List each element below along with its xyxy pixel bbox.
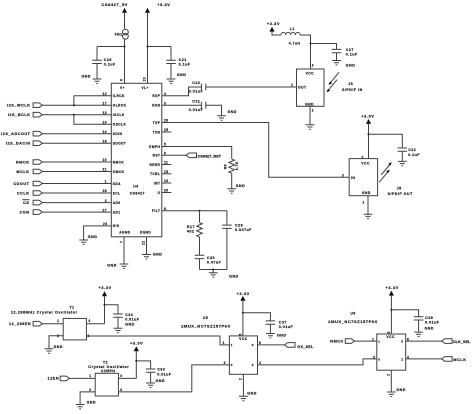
svg-text:+3.3V: +3.3V bbox=[157, 2, 170, 7]
svg-text:GND: GND bbox=[87, 401, 97, 405]
port CCLK bbox=[33, 191, 42, 196]
wire L1 to J6 VCC bbox=[300, 35, 310, 69]
wire CS8427_5V to FB1 bbox=[124, 13, 126, 29]
op-amp U4 CS8427 body bbox=[111, 83, 162, 237]
svg-text:0.1uF: 0.1uF bbox=[179, 63, 191, 67]
light-in arrow 1 (J6) bbox=[328, 80, 338, 91]
svg-text:C31: C31 bbox=[192, 99, 200, 103]
wire AGND pin to ground bbox=[123, 237, 125, 264]
svg-text:1: 1 bbox=[223, 341, 225, 345]
junction VL+ rail bbox=[147, 46, 149, 48]
wire C37 to ground bbox=[269, 324, 271, 333]
multiplexer U6 body bbox=[377, 334, 406, 370]
svg-text:CS8427_5V: CS8427_5V bbox=[101, 2, 128, 7]
svg-text:VCC: VCC bbox=[361, 162, 370, 166]
svg-text:GND: GND bbox=[88, 235, 98, 239]
wire branch to C38 bbox=[391, 310, 418, 317]
svg-text:4.7uH: 4.7uH bbox=[289, 41, 301, 45]
svg-text:12.288MHz Crystal Oscillator: 12.288MHz Crystal Oscillator bbox=[11, 311, 78, 315]
wire rail down to C21 top bbox=[170, 47, 172, 61]
svg-text:GND: GND bbox=[54, 345, 64, 349]
svg-text:FILT: FILT bbox=[152, 209, 160, 213]
svg-text:3: 3 bbox=[342, 173, 344, 177]
ground below U5 bbox=[239, 396, 248, 400]
svg-text:VCC: VCC bbox=[239, 337, 248, 341]
svg-text:GND: GND bbox=[277, 334, 287, 338]
junction C37 branch bbox=[242, 312, 244, 314]
svg-text:3: 3 bbox=[373, 355, 375, 359]
svg-text:C33: C33 bbox=[157, 368, 165, 372]
junction L1 node bbox=[310, 43, 312, 45]
svg-text:SCL: SCL bbox=[113, 191, 121, 195]
ground below H/S bbox=[79, 240, 88, 244]
wire 12EN to Y2 pin 1 bbox=[69, 377, 95, 379]
svg-text:CLK_SEL: CLK_SEL bbox=[453, 340, 471, 344]
svg-text:22: 22 bbox=[142, 241, 146, 245]
wire node to R17 bbox=[199, 211, 201, 223]
svg-text:+3.3V: +3.3V bbox=[130, 341, 143, 346]
svg-text:AD1: AD1 bbox=[113, 210, 121, 214]
svg-text:0.01uF: 0.01uF bbox=[125, 318, 140, 322]
capacitor C34 bbox=[113, 314, 123, 317]
wire branch to ILRCK pin 12 bbox=[74, 96, 111, 106]
svg-text:7: 7 bbox=[119, 241, 123, 243]
port RMCK (U6) bbox=[345, 339, 354, 344]
multiplexer U5 body bbox=[229, 336, 257, 374]
capacitor C31 bbox=[201, 102, 205, 109]
wire rail to C21 bbox=[148, 46, 172, 48]
junction I2S_BCLK branch bbox=[73, 114, 75, 116]
svg-text:OSCLK: OSCLK bbox=[113, 123, 127, 127]
svg-text:C32: C32 bbox=[192, 81, 200, 85]
capacitor C27 bbox=[332, 49, 342, 52]
resistor R17 bbox=[197, 223, 203, 237]
svg-text:Z: Z bbox=[401, 358, 403, 362]
wire branch to C34 bbox=[105, 305, 119, 314]
svg-text:1: 1 bbox=[372, 337, 374, 341]
svg-text:GND: GND bbox=[125, 323, 135, 327]
power arrow +3.3V (Y2) bbox=[134, 346, 139, 351]
wire RXP pin 4 to C32 bbox=[162, 87, 202, 96]
svg-text:OX_SEL: OX_SEL bbox=[297, 345, 314, 349]
svg-text:SDOUT: SDOUT bbox=[113, 142, 126, 146]
port CLK_SEL bbox=[442, 339, 453, 344]
wire I2S_WCLK to OLRCK bbox=[42, 104, 111, 106]
svg-text:0.047uF: 0.047uF bbox=[235, 228, 252, 232]
ground below Y1 bbox=[45, 349, 54, 353]
svg-text:2: 2 bbox=[312, 109, 314, 113]
inductor L1 bbox=[281, 32, 300, 35]
wire EMPH pin 5 to R8 bbox=[162, 147, 232, 159]
wire U pin 20 stub bbox=[162, 192, 172, 194]
svg-text:ILRCK: ILRCK bbox=[113, 94, 125, 98]
capacitor C28 bbox=[222, 225, 232, 228]
svg-text:0.1uF: 0.1uF bbox=[104, 63, 116, 67]
capacitor C33 bbox=[146, 369, 156, 372]
port I2S_DACIN bbox=[33, 141, 42, 146]
wire Y2 pin 3 to U5 pin 3 bbox=[118, 365, 229, 392]
wire H/S pin 24 to ground bbox=[84, 226, 112, 240]
port RMCK (left) bbox=[33, 160, 42, 165]
svg-text:2MUX_NC7SZ157P6X: 2MUX_NC7SZ157P6X bbox=[328, 319, 378, 324]
ground below C33 bbox=[146, 383, 155, 387]
svg-text:GND: GND bbox=[305, 103, 314, 107]
svg-text:DGND: DGND bbox=[140, 231, 151, 235]
oscillator Y1 body bbox=[63, 318, 86, 340]
svg-text:U6: U6 bbox=[350, 312, 355, 316]
wire +3.3V stem (Y2) bbox=[135, 351, 137, 378]
wire C29 bottom to ground bbox=[96, 64, 98, 79]
svg-text:C29: C29 bbox=[104, 58, 112, 62]
svg-text:SDIN: SDIN bbox=[113, 132, 123, 136]
power arrow +3.3V (Y1) bbox=[102, 291, 107, 296]
wire +3.3V stem (U6) bbox=[390, 296, 392, 334]
svg-text:0.01uF: 0.01uF bbox=[425, 321, 440, 325]
port 12_288EN bbox=[33, 321, 42, 326]
svg-text:12EN: 12EN bbox=[48, 377, 60, 381]
svg-text:C27: C27 bbox=[346, 48, 354, 52]
svg-text:I2S_DACIN: I2S_DACIN bbox=[6, 142, 31, 146]
svg-text:GND: GND bbox=[107, 264, 117, 268]
wire CCLK to SCL bbox=[42, 192, 111, 194]
wire J6 OUT stub bbox=[289, 86, 296, 88]
svg-text:AD0: AD0 bbox=[113, 201, 121, 205]
svg-text:2: 2 bbox=[386, 374, 390, 376]
svg-text:5: 5 bbox=[239, 333, 243, 335]
capacitor C37 bbox=[266, 321, 276, 324]
svg-text:C21: C21 bbox=[179, 58, 187, 62]
wire node to C27 bbox=[311, 44, 337, 50]
wire rail to C29 bbox=[97, 46, 125, 48]
svg-text:TCBL: TCBL bbox=[150, 172, 160, 176]
svg-text:1: 1 bbox=[57, 319, 59, 323]
svg-text:1: 1 bbox=[378, 340, 380, 344]
svg-text:GND: GND bbox=[236, 184, 246, 188]
wire I2S_ADCOUT to SDIN bbox=[42, 133, 111, 135]
svg-text:C34: C34 bbox=[125, 313, 133, 317]
svg-text:2: 2 bbox=[238, 378, 242, 380]
svg-text:3: 3 bbox=[312, 64, 314, 68]
wire +3.3V stem (Y1) bbox=[104, 296, 106, 324]
wire bottom rail bbox=[200, 269, 227, 271]
connector J5 S/PDIF OUT body bbox=[349, 159, 377, 196]
wire branch to C37 bbox=[243, 313, 271, 321]
svg-text:+3.3V: +3.3V bbox=[237, 291, 250, 296]
svg-text:23: 23 bbox=[143, 77, 147, 81]
ground below C22 bbox=[398, 161, 407, 165]
wire U6 pin 6 to CLK_SEL bbox=[406, 340, 442, 342]
light-out arrow 1 (J5) bbox=[379, 171, 389, 182]
svg-text:C38: C38 bbox=[425, 316, 433, 320]
svg-text:0: 0 bbox=[231, 363, 233, 367]
wire node down to C28 bbox=[226, 211, 228, 225]
svg-text:S/PDIF IN: S/PDIF IN bbox=[342, 88, 363, 92]
wire Y2 pin 2 to ground bbox=[80, 392, 95, 404]
svg-text:H/S: H/S bbox=[113, 224, 120, 228]
svg-text:Y1: Y1 bbox=[69, 305, 74, 309]
svg-text:RXN: RXN bbox=[152, 104, 160, 108]
svg-text:CS8427: CS8427 bbox=[130, 191, 145, 195]
svg-text:RERR: RERR bbox=[149, 163, 160, 167]
svg-text:1: 1 bbox=[291, 83, 293, 87]
junction C33 branch bbox=[135, 360, 137, 362]
svg-text:0.47uF: 0.47uF bbox=[207, 261, 222, 265]
ground below J5 bbox=[364, 214, 373, 218]
svg-text:C30: C30 bbox=[207, 256, 215, 260]
ground below Y2 bbox=[76, 405, 85, 409]
wire rail to ground bbox=[212, 270, 214, 273]
svg-text:CS: CS bbox=[23, 201, 29, 205]
svg-text:GND: GND bbox=[396, 388, 406, 392]
svg-text:U4: U4 bbox=[133, 185, 138, 189]
svg-text:J5: J5 bbox=[397, 186, 402, 190]
svg-text:12_288EN: 12_288EN bbox=[9, 322, 31, 326]
wire I2S_BCLK to ISCLK bbox=[42, 114, 111, 116]
power arrow CS8427_5V bbox=[122, 8, 127, 13]
svg-text:I2S_BCLK: I2S_BCLK bbox=[8, 113, 31, 117]
wire U5 pin 6 to OX_SEL bbox=[258, 344, 285, 346]
connector J6 S/PDIF IN body bbox=[297, 69, 325, 106]
svg-text:SDA: SDA bbox=[113, 182, 121, 186]
junction J5 VCC node bbox=[368, 133, 370, 135]
svg-text:U: U bbox=[158, 191, 161, 195]
wire C28 to bottom rail bbox=[226, 228, 228, 269]
junction I2S_WCLK branch bbox=[73, 104, 75, 106]
ground below DGND bbox=[142, 255, 151, 259]
svg-text:0.01uF: 0.01uF bbox=[189, 90, 204, 94]
svg-text:RMCK: RMCK bbox=[113, 160, 125, 164]
wire U6 GND to ground bbox=[390, 370, 392, 392]
wire TXN pin 25 stub bbox=[162, 131, 172, 133]
svg-text:C22: C22 bbox=[408, 148, 416, 152]
svg-text:S: S bbox=[252, 343, 254, 347]
svg-text:RMCK: RMCK bbox=[330, 340, 344, 344]
capacitor C30 bbox=[195, 255, 205, 258]
wire C22 to ground bbox=[401, 151, 403, 161]
wire RERR pin 11 stub bbox=[162, 164, 172, 166]
ground at C31 bbox=[217, 116, 226, 120]
ground below R8 bbox=[227, 189, 236, 193]
wire RMCK to pin 10 bbox=[42, 161, 111, 163]
svg-text:CCLK: CCLK bbox=[17, 191, 30, 195]
wire R8 to ground bbox=[231, 173, 233, 188]
wire R17 to C30 bbox=[199, 237, 201, 255]
svg-text:VL+: VL+ bbox=[142, 86, 149, 90]
svg-text:RST: RST bbox=[153, 154, 161, 158]
svg-text:OUT: OUT bbox=[298, 86, 307, 90]
svg-text:3: 3 bbox=[224, 361, 226, 365]
wire C27 to ground bbox=[336, 53, 338, 61]
junction FILT node bbox=[199, 210, 201, 212]
svg-text:TXP: TXP bbox=[153, 121, 161, 125]
svg-text:4.7K: 4.7K bbox=[235, 161, 239, 170]
capacitor C38 bbox=[414, 317, 424, 320]
svg-text:0.01uF: 0.01uF bbox=[279, 325, 294, 329]
port 12EN bbox=[60, 376, 69, 381]
wire U6 pin 4 to MCLK bbox=[406, 358, 442, 360]
power arrow +3.3V (U5) bbox=[240, 296, 245, 301]
wire J6 GND to ground bbox=[309, 106, 311, 124]
svg-text:GND: GND bbox=[82, 74, 92, 78]
ground below C34 bbox=[114, 328, 123, 332]
wire C33 to ground bbox=[150, 372, 152, 383]
svg-text:S: S bbox=[401, 340, 403, 344]
wire +3.3V to L1 bbox=[272, 32, 281, 35]
svg-text:GND: GND bbox=[153, 253, 163, 257]
svg-text:+3.3V: +3.3V bbox=[386, 285, 399, 290]
svg-text:GND: GND bbox=[156, 379, 166, 383]
port I2S_WCLK bbox=[33, 103, 42, 108]
capacitor C29 bbox=[92, 60, 102, 63]
svg-text:1: 1 bbox=[231, 343, 233, 347]
wire INT pin 19 stub bbox=[162, 182, 172, 184]
wire branch to OSCLK pin 19 bbox=[74, 115, 111, 125]
capacitor C21 bbox=[166, 60, 176, 63]
wire C30 to bottom rail bbox=[199, 259, 201, 270]
svg-text:ISCLK: ISCLK bbox=[113, 113, 125, 117]
wire Y2 pin 4 to +3.3V bbox=[118, 377, 136, 379]
svg-text:4: 4 bbox=[120, 374, 122, 378]
ground below AGND bbox=[120, 264, 129, 268]
svg-text:Z: Z bbox=[252, 363, 254, 367]
wire +3.3V to J5 VCC bbox=[368, 124, 370, 159]
svg-text:I2S_ADCOUT: I2S_ADCOUT bbox=[1, 132, 31, 136]
port CS8427_RST bbox=[186, 153, 197, 158]
ground below U6 bbox=[387, 392, 396, 396]
svg-text:2MUX_NC7SZ157P6X: 2MUX_NC7SZ157P6X bbox=[181, 323, 231, 328]
wire 12_288EN to Y1 pin 1 bbox=[42, 323, 63, 325]
wire branch to C33 bbox=[136, 361, 150, 369]
junction V+ rail bbox=[124, 46, 126, 48]
svg-text:INT: INT bbox=[154, 181, 161, 185]
svg-text:IN: IN bbox=[351, 176, 355, 180]
capacitor C22 bbox=[398, 148, 408, 151]
svg-text:S/PDIF OUT: S/PDIF OUT bbox=[388, 192, 413, 196]
svg-text:MCLK: MCLK bbox=[453, 358, 466, 362]
svg-text:CDOUT: CDOUT bbox=[13, 182, 29, 186]
port I2S_ADCOUT bbox=[33, 131, 42, 136]
svg-text:GND: GND bbox=[346, 63, 356, 67]
svg-text:AGND: AGND bbox=[119, 231, 130, 235]
svg-text:0.1uF: 0.1uF bbox=[408, 153, 420, 157]
ground below FILT network bbox=[209, 273, 218, 277]
wire J5 GND to ground bbox=[367, 196, 369, 214]
svg-text:+3.3V: +3.3V bbox=[267, 21, 280, 26]
svg-text:4: 4 bbox=[88, 319, 90, 323]
wire DGND pin to ground bbox=[146, 237, 148, 255]
wire Y1 pin 3 to U5 pin 1 bbox=[86, 336, 229, 345]
ground below C29 bbox=[93, 79, 102, 83]
wire CS to AD0 bbox=[42, 202, 111, 204]
wire C32 to J6 OUT bbox=[206, 86, 297, 88]
ground below C37 bbox=[266, 334, 275, 338]
svg-text:I2S_WCLK: I2S_WCLK bbox=[7, 104, 30, 108]
wire U5 pin 4 to U6 pin 3 bbox=[258, 359, 377, 365]
svg-text:C37: C37 bbox=[279, 320, 287, 324]
port CON bbox=[33, 210, 42, 215]
port MCLK (left) bbox=[33, 169, 42, 174]
svg-text:12MHz: 12MHz bbox=[101, 369, 116, 373]
ground below C27 bbox=[332, 61, 341, 65]
svg-text:GND: GND bbox=[362, 191, 371, 195]
power arrow +3.3V (IC) bbox=[145, 8, 150, 13]
svg-text:EMPH: EMPH bbox=[149, 145, 160, 149]
ferrite bead FB1 bbox=[123, 29, 129, 35]
svg-text:RXP: RXP bbox=[152, 94, 160, 98]
svg-text:FB1: FB1 bbox=[115, 33, 123, 37]
svg-text:0.01uF: 0.01uF bbox=[189, 108, 204, 112]
wire node to C22 bbox=[369, 134, 403, 148]
svg-text:CS8427_RST: CS8427_RST bbox=[198, 155, 222, 159]
power arrow +3.3V (J5) bbox=[366, 119, 371, 124]
wire U5 GND to ground bbox=[242, 374, 244, 396]
wire RST pin 9 to port bbox=[162, 154, 186, 156]
svg-text:OLRCK: OLRCK bbox=[113, 104, 127, 108]
svg-text:TXN: TXN bbox=[153, 130, 161, 134]
resistor R8 bbox=[229, 159, 235, 173]
svg-text:Y2: Y2 bbox=[103, 361, 108, 365]
svg-text:CON: CON bbox=[19, 210, 29, 214]
wire rail down to C29 top bbox=[96, 47, 98, 61]
wire MCLK to OMCK bbox=[42, 171, 111, 173]
wire C38 to ground bbox=[418, 320, 420, 332]
ground below C21 bbox=[167, 79, 176, 83]
svg-text:C28: C28 bbox=[235, 223, 243, 227]
svg-text:MCLK: MCLK bbox=[16, 170, 29, 174]
svg-text:5: 5 bbox=[387, 331, 391, 333]
svg-text:GND: GND bbox=[425, 326, 435, 330]
wire +3.3V to VL+ pin bbox=[147, 13, 149, 84]
ground below J6 bbox=[306, 125, 315, 129]
power arrow +3.3V (U6) bbox=[389, 291, 394, 296]
oscillator Y2 body bbox=[95, 373, 118, 396]
wire C34 to ground bbox=[117, 317, 119, 328]
wire CON to AD1 bbox=[42, 211, 111, 213]
svg-text:V+: V+ bbox=[120, 86, 125, 90]
wire RXN pin 3 to C31 bbox=[162, 104, 202, 106]
port MCLK bbox=[442, 357, 453, 362]
svg-text:24: 24 bbox=[103, 222, 107, 226]
svg-text:2: 2 bbox=[362, 156, 364, 160]
wire I2S_DACIN to SDOUT bbox=[42, 142, 111, 144]
light-out arrow 2 (J5) bbox=[381, 164, 391, 175]
svg-text:GND: GND bbox=[229, 275, 239, 279]
svg-text:+3.3V: +3.3V bbox=[98, 285, 111, 290]
svg-text:0.1uF: 0.1uF bbox=[346, 53, 358, 57]
svg-text:R17: R17 bbox=[187, 225, 195, 229]
svg-text:0.01uF: 0.01uF bbox=[157, 372, 172, 376]
svg-text:L1: L1 bbox=[290, 27, 295, 31]
junction C38 branch bbox=[390, 309, 392, 311]
junction C34 branch bbox=[104, 304, 106, 306]
wire C21 bottom to ground bbox=[170, 64, 172, 79]
light-in arrow 2 (J6) bbox=[330, 72, 340, 83]
svg-text:1: 1 bbox=[362, 201, 364, 205]
svg-text:GND: GND bbox=[177, 73, 187, 77]
svg-text:OMCK: OMCK bbox=[113, 170, 125, 174]
svg-text:VCC: VCC bbox=[386, 335, 395, 339]
capacitor C32 bbox=[201, 84, 205, 91]
wire Y1 pin 4 to +3.3V bbox=[86, 323, 104, 325]
port CDOUT bbox=[33, 181, 42, 186]
svg-text:0: 0 bbox=[378, 358, 380, 362]
wire FB1 to V+ pin bbox=[124, 39, 126, 83]
svg-text:VCC: VCC bbox=[306, 72, 315, 76]
port CS_bar bbox=[33, 200, 42, 205]
port OX_SEL bbox=[285, 343, 296, 348]
svg-text:U5: U5 bbox=[203, 316, 208, 320]
power arrow +3.3V (J6) bbox=[269, 27, 274, 32]
